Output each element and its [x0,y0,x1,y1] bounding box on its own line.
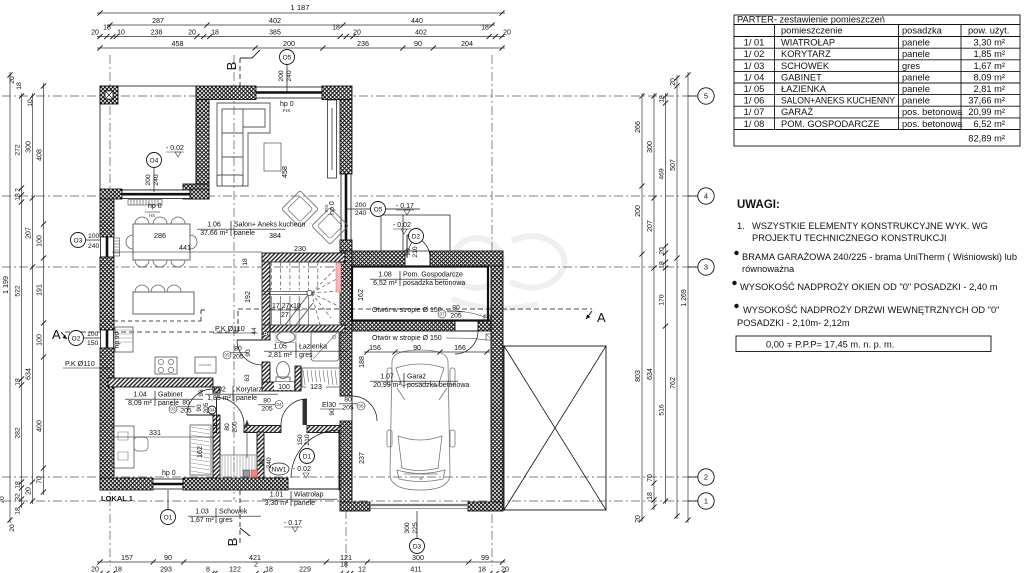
svg-text:Schowek: Schowek [219,509,248,516]
dim right colB [653,93,655,510]
door label bath [223,346,247,361]
grid bubble 1 [698,493,714,509]
svg-text:panele: panele [902,38,930,48]
svg-text:18: 18 [340,561,348,568]
door El30 garage arc [352,396,377,421]
svg-text:SALON+ANEKS KUCHENNY: SALON+ANEKS KUCHENNY [781,96,895,106]
svg-text:170: 170 [658,294,665,306]
svg-text:27: 27 [281,312,289,319]
svg-text:100: 100 [36,235,43,247]
svg-text:240: 240 [266,457,273,469]
dim row fine top [97,36,505,38]
svg-text:6,52 m²: 6,52 m² [973,119,1005,129]
pom gosp bold outline [352,267,488,321]
svg-text:225: 225 [412,522,419,534]
wall pom-gosp north west [352,251,405,266]
grid bubble lead 5 [688,95,698,97]
wall bathroom west upper [262,325,270,340]
level O4 tri [175,152,181,157]
grid line 5 [2,95,698,97]
wall gabinet east lower [213,415,220,478]
svg-text:150: 150 [297,434,304,446]
label wiatrolap [262,491,337,507]
svg-text:287: 287 [152,16,164,25]
svg-text:240: 240 [286,70,293,82]
dim PK110 left line [63,367,110,369]
grid bubble lead 2 [688,476,698,478]
svg-text:PARTER- zestawienie pomieszcze: PARTER- zestawienie pomieszczeń [737,15,885,25]
svg-text:157: 157 [121,553,133,562]
wardrobe hangers [302,368,340,387]
svg-text:UWAGI:: UWAGI: [737,199,780,211]
svg-text:408: 408 [36,149,43,161]
door El30 leaf [351,396,353,421]
svg-text:20: 20 [188,29,196,36]
svg-text:90: 90 [259,459,266,467]
svg-text:240: 240 [88,243,100,250]
wall pom-gosp north east [430,251,503,266]
label gabinet [125,391,203,407]
window bubble O5 top [280,50,295,65]
svg-text:469: 469 [658,168,665,180]
svg-text:Łazienka: Łazienka [299,344,327,351]
svg-text:posadzka betonowa: posadzka betonowa [403,280,465,287]
dim left col2 [21,93,23,508]
window O3 100/240 [101,237,114,257]
stairs [262,262,340,325]
stairs insulation strip [336,263,341,292]
svg-text:205: 205 [261,406,273,413]
grid line d [345,425,347,568]
svg-text:20: 20 [658,247,665,255]
svg-text:O3: O3 [74,237,83,244]
dim row 287-402-440 [107,24,495,26]
svg-text:07: 07 [439,312,445,317]
svg-text:20: 20 [503,29,511,36]
terrace diagonal 1 [504,346,606,510]
svg-text:272: 272 [14,144,21,156]
dim right colD [676,75,678,519]
O1 leader [167,490,169,510]
svg-text:634: 634 [647,368,654,380]
window bubble O2 [69,331,84,346]
svg-text:O2: O2 [72,335,81,342]
svg-text:1/ 08: 1/ 08 [744,119,765,129]
svg-text:0,00 ∓ P.P.P= 17,45 m. n. p. m: 0,00 ∓ P.P.P= 17,45 m. n. p. m. [766,340,894,350]
dining chairs [126,217,197,267]
svg-text:B: B [225,538,240,547]
svg-text:18: 18 [658,261,665,269]
section B corner top 2 [252,50,260,58]
NW1 tri [303,473,309,478]
door label pomgosp-garage [438,305,465,320]
svg-text:6,52 m²: 6,52 m² [373,280,397,287]
svg-text:panele: panele [294,500,315,507]
svg-text:1/ 03: 1/ 03 [744,61,765,71]
door bathroom leaf [237,339,262,341]
grid line 3 [2,266,698,268]
wall pom-gosp / garage divider east [478,320,491,331]
wall west lower segment [100,348,114,490]
svg-text:1.04: 1.04 [133,392,147,399]
svg-text:37,66 m²: 37,66 m² [200,230,228,237]
window O2 100/150 [101,330,114,348]
svg-text:P.K Ø110: P.K Ø110 [65,359,95,368]
schowek shelves [220,455,257,478]
svg-text:pos. betonowa: pos. betonowa [902,119,963,129]
svg-text:20: 20 [91,29,99,36]
dim right colE [687,72,689,523]
svg-text:12: 12 [358,566,366,573]
svg-text:82,89 m²: 82,89 m² [968,134,1005,144]
svg-text:1.08: 1.08 [378,272,392,279]
svg-text:210: 210 [412,246,419,258]
dining table [133,224,190,260]
svg-text:188: 188 [359,356,366,368]
door gabinet arc [187,389,213,415]
armchair 2 [312,208,349,245]
door label wiatrolap [258,398,283,413]
svg-text:1/ 02: 1/ 02 [744,49,765,59]
overhang dashed h2 [201,309,208,311]
dim left col3 [32,93,34,504]
svg-text:8,09 m²: 8,09 m² [128,400,152,407]
wall korytarz south mid [244,426,281,433]
window O4 200/240 [122,190,190,199]
svg-text:522: 522 [14,285,21,297]
svg-text:20: 20 [9,524,16,532]
svg-text:100: 100 [278,384,290,391]
svg-text:pow. użyt.: pow. użyt. [968,26,1009,36]
wall north upper-left [196,86,256,100]
svg-text:3: 3 [704,263,708,272]
door bubble D2 [409,229,424,244]
bathroom sink [277,332,295,343]
svg-text:Otwór w stropie Ø 150: Otwór w stropie Ø 150 [372,335,442,342]
svg-text:O5: O5 [374,206,383,213]
svg-text:18: 18 [14,193,21,201]
kitchen island [133,292,194,314]
svg-text:162: 162 [197,446,204,458]
svg-text:03: 03 [170,407,176,412]
wall wardrobe nook west [295,366,301,391]
O5 top leader [286,64,288,92]
svg-text:1,67 m²: 1,67 m² [190,517,214,524]
svg-text:1.: 1. [737,221,745,231]
svg-text:1,67 m²: 1,67 m² [973,61,1005,71]
svg-text:70: 70 [647,474,654,482]
watermark [452,236,565,308]
svg-text:posadzka: posadzka [902,26,943,36]
svg-text:gres: gres [902,61,920,71]
svg-text:panele: panele [234,230,255,237]
svg-text:229: 229 [299,566,311,573]
overhang dashed h [114,320,201,322]
svg-text:385: 385 [269,29,281,36]
armchair 1 [282,191,319,228]
svg-text:80: 80 [234,346,242,353]
dim 123 underlay [306,382,326,390]
svg-text:238: 238 [151,29,163,36]
door wiatrolap arc [281,399,307,425]
svg-text:ŁAZIENKA: ŁAZIENKA [781,84,827,94]
wall house-garage upper [340,251,352,396]
svg-text:99: 99 [481,553,489,562]
svg-text:3,30 m²: 3,30 m² [265,500,289,507]
label El30 line [320,408,344,410]
svg-text:18: 18 [332,24,340,31]
svg-text:166: 166 [454,345,466,352]
svg-text:192: 192 [245,291,252,303]
wall salon-stairs horizontal [262,253,345,262]
sofa salon [217,103,270,186]
dim 331 line [114,436,213,438]
window O1 90/240 [153,479,183,489]
door schowek arc [217,398,245,426]
gabinet desk [112,426,134,468]
svg-text:411: 411 [410,566,421,573]
wall korytarz south w [213,426,217,433]
wall west upper corner block [183,184,209,199]
svg-text:POSADZKI - 2,10m- 2,12m: POSADZKI - 2,10m- 2,12m [737,318,850,328]
O5 right leader 2 [386,208,420,210]
kitchen stools [135,285,181,292]
svg-text:Otwór w stropie Ø 150: Otwór w stropie Ø 150 [372,307,442,314]
grid bubble 3 [698,259,714,275]
svg-text:HS: HS [149,213,155,218]
svg-text:D1: D1 [303,453,312,460]
svg-text:205: 205 [450,313,462,320]
svg-text:1/ 06: 1/ 06 [744,96,765,106]
window bubble O1 [161,510,176,525]
dim left total [9,72,11,523]
svg-text:90: 90 [329,408,336,416]
svg-text:20,99 m²: 20,99 m² [968,107,1005,117]
svg-text:80: 80 [452,305,460,312]
D2 leader [407,242,412,252]
svg-text:17 27x18: 17 27x18 [272,303,301,310]
door pom-gosp garage arc [455,331,478,354]
svg-text:panele: panele [902,96,930,106]
svg-text:1: 1 [704,497,708,506]
terrace diagonal 2 [504,346,606,510]
label lazienka [264,343,347,359]
svg-text:207: 207 [25,227,32,239]
svg-text:1.03: 1.03 [195,509,209,516]
section B line bottom [239,490,241,545]
svg-text:237: 237 [359,452,366,464]
dim 441 line [112,251,262,253]
svg-text:równoważna: równoważna [742,264,795,274]
svg-text:WIATROŁAP: WIATROŁAP [781,38,835,48]
svg-text:122: 122 [229,566,241,573]
door D1 threshold [288,488,339,490]
svg-text:96: 96 [198,389,205,397]
svg-text:- 0.02: - 0.02 [166,145,184,152]
bathroom vent circle [263,331,267,335]
svg-text:05: 05 [224,353,230,358]
svg-text:282: 282 [14,427,21,439]
svg-text:NW1: NW1 [271,467,286,474]
svg-text:8: 8 [206,566,210,573]
svg-text:300: 300 [404,522,411,534]
svg-text:200: 200 [283,39,295,48]
svg-text:90: 90 [164,553,172,562]
door wiatrolap leaf bar [303,399,308,425]
svg-text:Salon+ Aneks kuchenn: Salon+ Aneks kuchenn [234,222,306,229]
svg-text:205: 205 [180,408,192,415]
svg-text:441: 441 [179,243,191,252]
svg-text:Pom. Gospodarcze: Pom. Gospodarcze [403,272,463,279]
svg-text:Garaż: Garaż [407,374,427,381]
svg-text:205: 205 [203,402,210,413]
level D2 tri [401,229,407,234]
door bubble D1 [300,449,315,464]
svg-text:posadzka betonowa: posadzka betonowa [407,382,469,389]
svg-text:1.02: 1.02 [212,387,226,394]
label korytarz [205,386,278,402]
svg-text:123: 123 [310,384,322,391]
radiator dining window [128,200,162,206]
svg-text:90: 90 [414,39,422,48]
svg-text:pomieszczenie: pomieszczenie [781,26,843,36]
svg-text:384: 384 [269,231,281,240]
svg-text:FIX: FIX [283,108,291,114]
wall salon-stairs vertical [262,262,270,325]
svg-text:20,99 m²: 20,99 m² [373,382,401,389]
wall west upper segment [100,199,114,237]
grid bubble 5 [698,88,714,104]
svg-text:2,81 m²: 2,81 m² [973,84,1005,94]
svg-text:20: 20 [9,76,16,84]
svg-text:100: 100 [88,233,100,240]
svg-text:20: 20 [501,566,509,573]
svg-text:08: 08 [358,404,364,409]
svg-text:O5: O5 [283,54,292,61]
table text [737,15,1009,144]
section A step [237,309,239,332]
svg-text:507: 507 [670,159,677,171]
svg-text:O1: O1 [164,514,173,521]
wall schowek-wiatrolap [257,432,264,478]
svg-text:210: 210 [304,434,311,446]
window bubble O4 [147,153,162,168]
svg-text:- 0.17: - 0.17 [284,520,302,527]
grid line a [109,55,111,566]
O3 leader [86,239,100,241]
svg-text:32: 32 [14,493,21,501]
wall bathroom west lower [262,362,270,390]
O5 right leader [346,208,370,210]
dim left col4 [43,83,45,495]
entry landing D2 [381,215,450,251]
svg-text:20: 20 [91,566,99,573]
svg-text:1,85 m²: 1,85 m² [207,395,231,402]
svg-text:458: 458 [172,39,184,48]
svg-text:191: 191 [36,284,43,296]
svg-text:1/ 01: 1/ 01 [744,38,765,48]
svg-text:80: 80 [263,398,271,405]
wall house-garage lower [340,421,352,511]
svg-text:80: 80 [344,397,352,404]
grid bubble lead 4 [688,195,698,197]
svg-text:18: 18 [265,566,273,573]
svg-text:300: 300 [412,553,424,562]
section B corner top [240,57,252,59]
wall pom-gosp / garage divider west [352,320,455,331]
dim PK110 bath line [213,332,258,334]
wall bathroom north [270,325,345,332]
uwagi notes [732,199,1017,328]
svg-text:- 0.02: - 0.02 [393,222,411,229]
svg-text:Wiatrołap: Wiatrołap [294,492,324,499]
svg-text:205: 205 [342,405,354,412]
svg-text:1/ 04: 1/ 04 [744,72,765,82]
svg-text:hp 90: hp 90 [114,331,121,348]
wall dining north west [100,189,122,199]
svg-text:Korytarz: Korytarz [236,387,263,394]
svg-text:lodowka: lodowka [199,363,212,367]
svg-text:8,09 m²: 8,09 m² [973,72,1005,82]
svg-text:2,81 m²: 2,81 m² [268,352,292,359]
section A arrow left [61,332,67,339]
wall dining north east [190,189,209,199]
svg-text:WSZYSTKIE ELEMENTY KONSTRUKCYJ: WSZYSTKIE ELEMENTY KONSTRUKCYJNE WYK. WG [752,221,988,231]
svg-text:200: 200 [145,174,152,186]
svg-text:FIX: FIX [324,203,330,211]
svg-text:2: 2 [704,473,708,482]
wall east salon corner [340,240,352,251]
svg-text:panele: panele [902,49,930,59]
door gabinet leaf [187,414,213,416]
bathroom toilet [277,362,290,379]
porch column core [105,91,113,99]
svg-text:pos. betonowa: pos. betonowa [902,107,963,117]
svg-text:204: 204 [461,39,473,48]
svg-text:hp 0: hp 0 [280,101,294,108]
grid line 4 [2,195,698,197]
wall south gabinet west [100,478,153,490]
svg-text:90: 90 [196,404,203,412]
door bathroom arc [237,340,262,365]
svg-text:20: 20 [25,487,32,495]
svg-text:18: 18 [16,82,23,90]
wall east salon upper [340,100,352,175]
section A line right [238,308,592,310]
entry landing divider [402,215,404,251]
wall wiatrolap north east [307,426,340,433]
otwor 2 arrow [446,338,486,340]
svg-text:18: 18 [114,566,122,573]
svg-text:A: A [597,310,606,325]
svg-text:1 269: 1 269 [681,289,688,307]
label pom gosp [370,271,465,287]
wall gabinet east upper [213,387,220,393]
svg-text:18: 18 [658,95,665,103]
svg-text:205: 205 [232,421,239,433]
door label gabinet [169,400,195,415]
door pom-gosp garage leaf [455,330,478,332]
svg-text:18: 18 [14,378,21,386]
svg-text:1.07: 1.07 [380,374,394,381]
dim bottom row1 [97,561,505,563]
svg-text:634: 634 [25,368,32,380]
svg-text:200: 200 [355,202,367,209]
svg-text:El30: El30 [322,402,336,409]
grid line 1 [2,500,698,502]
svg-text:D2: D2 [412,233,421,240]
dim right colA [641,93,643,522]
